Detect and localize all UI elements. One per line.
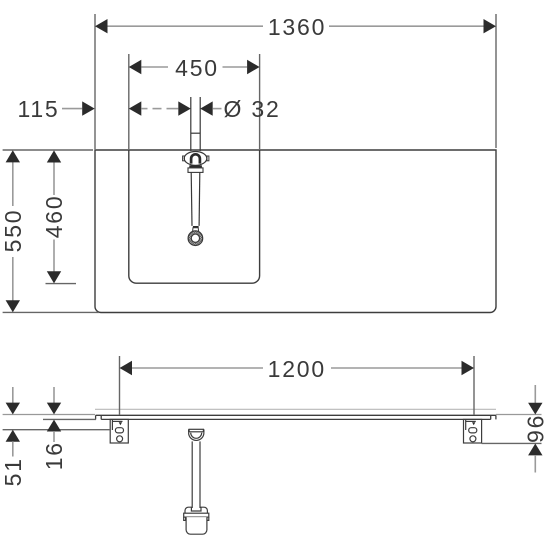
svg-text:550: 550 [0,209,26,253]
svg-text:115: 115 [17,96,59,122]
svg-text:96: 96 [523,414,548,443]
svg-text:460: 460 [41,195,67,239]
svg-text:1360: 1360 [268,14,326,40]
svg-text:450: 450 [175,55,219,81]
svg-text:1200: 1200 [268,356,326,382]
svg-text:51: 51 [0,457,26,486]
svg-text:16: 16 [41,441,67,470]
svg-text:Ø 32: Ø 32 [224,96,281,122]
